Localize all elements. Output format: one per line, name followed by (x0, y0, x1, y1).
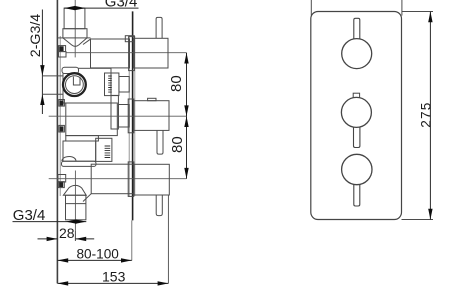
knob3 stem (354, 184, 360, 206)
block corner diagonal (83, 39, 90, 44)
dim 80-100 line (57, 259, 131, 261)
bottom cartridge body (134, 164, 170, 195)
lower knurled nut (96, 138, 112, 161)
2-G3/4 arrow up (40, 94, 44, 105)
middle cartridge stem (157, 130, 163, 154)
middle cartridge flange (128, 99, 134, 133)
knob2 stem (354, 126, 360, 148)
cap above port circle (62, 67, 79, 73)
knob1 circle (342, 39, 372, 69)
main valve body upper (63, 68, 111, 103)
dim 275 line (429, 12, 431, 220)
wall finish line (dark) (132, 11, 134, 220)
dim 28 line right part (75, 238, 94, 240)
neck mid to wall (118, 105, 129, 128)
hex shoulder line left (58, 37, 63, 39)
bottom fitting body (66, 195, 86, 220)
dim 28 ext line right (74, 231, 76, 241)
bottom fitting dome (63, 185, 86, 195)
dim G3/4 top: left arrow (64, 6, 75, 10)
screw mid-2 housing (59, 125, 65, 132)
dim 80 (top) line (186, 53, 188, 116)
dim 275 ext line top (402, 11, 434, 13)
neck top to wall (119, 77, 129, 93)
bottom pipe block (91, 164, 134, 194)
dim 80 bottom arrow up (184, 116, 188, 127)
svg-text:275: 275 (418, 102, 433, 128)
dim 80 bottom arrow down (184, 168, 188, 179)
mounting plate (edge-on vertical line) (56, 0, 58, 283)
middle cartridge body (134, 101, 169, 131)
svg-text:153: 153 (102, 268, 126, 284)
dim G3/4 top: right arrow (75, 6, 86, 10)
port keyway (73, 77, 80, 85)
top inlet pipe (64, 8, 85, 29)
dim 28 arrow left (47, 237, 58, 241)
dim 153 ext line right (167, 195, 169, 283)
mid small box (111, 95, 118, 129)
screw mid-2 dark (60, 126, 64, 131)
bracket bottom on plate (58, 175, 66, 183)
screw bottom housing (58, 182, 64, 188)
dim 80-100 arrow left (57, 258, 68, 262)
port circle inner (66, 76, 84, 94)
projection line left (310, 0, 312, 16)
projection line right (401, 0, 403, 16)
top pipe block to wall (91, 39, 130, 68)
svg-text:80-100: 80-100 (77, 247, 120, 262)
top cartridge flange tab (125, 36, 134, 42)
knob3 circle (342, 154, 372, 184)
dim 80 top arrow down (184, 105, 188, 116)
dim 28 line left part (38, 238, 58, 240)
trim plate (311, 12, 402, 220)
dim G3/4 top: dimension line (64, 7, 138, 9)
cartridge nut top (knurled) (105, 73, 119, 96)
knob1 stem (354, 18, 360, 39)
dim 80-100 ext line right (wall) (131, 220, 133, 260)
G3/4 bottom left arrow (66, 219, 77, 223)
dim 275 arrow up (428, 12, 432, 23)
knurl ticks top nut (108, 76, 112, 92)
mounting lug dome (62, 157, 76, 162)
bottom cartridge centerline (49, 178, 187, 180)
thin bar below body (66, 136, 99, 141)
top inlet centerline (74, 0, 76, 57)
2-G3/4 arrow down (40, 65, 44, 76)
dim 80 (bottom) line (186, 116, 188, 179)
svg-text:2-G3/4: 2-G3/4 (28, 14, 44, 57)
body mid section (66, 103, 118, 136)
bracket under top screw (59, 52, 67, 57)
top inlet hex body (63, 29, 87, 38)
knob2 tab (353, 93, 359, 98)
screw top dark (59, 46, 63, 51)
chamfer to bottom fitting (83, 194, 91, 202)
hex shoulder line right (87, 37, 91, 39)
bottom cartridge flange (128, 162, 134, 197)
bottom fitting centerline (74, 171, 76, 231)
svg-text:80: 80 (168, 75, 185, 92)
middle cartridge centerline (49, 115, 187, 117)
svg-text:80: 80 (169, 136, 186, 153)
screw top housing (59, 46, 66, 52)
lower-left block (63, 141, 96, 161)
bottom cartridge stem slot (156, 195, 162, 216)
dim 275 ext line bottom (402, 219, 434, 221)
port circle outer (63, 73, 86, 96)
bottom fitting joint line (66, 203, 86, 205)
screw mid-1 housing (59, 100, 65, 107)
dim 153 arrow right (158, 281, 169, 285)
2-G3/4 ext line lower (42, 93, 64, 95)
top cartridge body (134, 38, 168, 68)
screw bottom dark (59, 182, 63, 187)
2-G3/4 ext line upper (42, 75, 64, 77)
dim 80-100 arrow right (121, 258, 132, 262)
top cartridge stem (156, 17, 162, 38)
dim 153 line (57, 282, 168, 284)
knurl ticks lower nut (105, 146, 111, 158)
dim 80 top arrow up (184, 53, 188, 64)
top inlet chamfer (63, 38, 87, 47)
top cartridge centerline (66, 52, 187, 54)
2-G3/4 leader+dim line vertical (41, 10, 43, 115)
wall flange light line left (128, 36, 130, 196)
mounting lug bar (62, 161, 97, 166)
svg-text:28: 28 (59, 225, 75, 241)
svg-text:G3/4: G3/4 (105, 0, 138, 10)
dim 28 arrow right (75, 237, 86, 241)
wall flange light line right (134, 36, 136, 196)
screw mid-1 dark (60, 101, 64, 106)
G3/4 bottom right arrow (76, 219, 87, 223)
G3/4 bottom leader line (13, 221, 87, 223)
knob2 circle (341, 97, 371, 127)
top cartridge flange (129, 37, 135, 71)
middle cartridge tab (148, 98, 156, 100)
plate second line (59, 36, 61, 196)
dim 275 arrow down (428, 209, 432, 220)
dim 153 arrow left (57, 281, 68, 285)
